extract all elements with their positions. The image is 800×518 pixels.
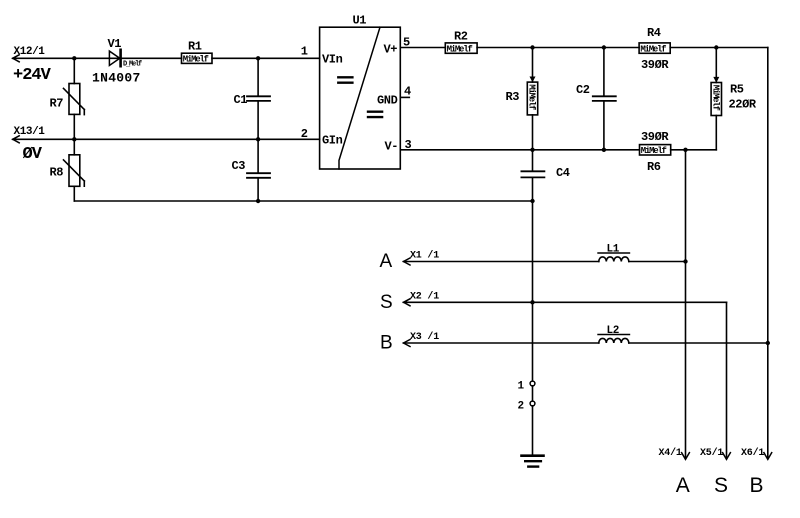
svg-text:C2: C2	[576, 83, 590, 97]
wire B left segment	[404, 342, 599, 344]
resistor R3	[527, 48, 538, 150]
resistor R4	[639, 43, 670, 55]
svg-text:GND: GND	[377, 93, 398, 107]
terminal X4/1	[659, 447, 690, 459]
junction V- / R3 C4	[530, 148, 534, 152]
svg-text:22ØR: 22ØR	[729, 98, 757, 112]
svg-text:V-: V-	[385, 140, 399, 154]
svg-text:X12/1: X12/1	[14, 46, 46, 58]
junction V- / line A	[683, 148, 687, 152]
switch contact 1	[530, 381, 535, 386]
svg-text:R8: R8	[50, 165, 64, 179]
wire bottom-left rail	[74, 200, 532, 202]
wire V+ rail R2 to R4	[477, 47, 639, 49]
wire line A vertical	[685, 150, 687, 459]
svg-text:S: S	[380, 292, 393, 313]
wire contact 2 to ground	[532, 406, 534, 455]
svg-text:X4/1: X4/1	[659, 447, 682, 459]
svg-text:D_Melf: D_Melf	[123, 61, 142, 69]
capacitor C1	[247, 58, 270, 139]
svg-text:X1 /1: X1 /1	[410, 250, 439, 262]
svg-text:MiMelf: MiMelf	[641, 146, 667, 156]
capacitor C3	[247, 139, 270, 201]
svg-text:X2 /1: X2 /1	[410, 290, 439, 302]
varistor R8	[64, 139, 85, 201]
junction V+ / R5	[714, 45, 718, 49]
svg-text:R2: R2	[454, 29, 468, 43]
junction bottom-left rail / shield drop	[530, 199, 534, 203]
terminal X6/1	[741, 447, 772, 459]
svg-text:39ØR: 39ØR	[641, 130, 669, 144]
svg-text:R5: R5	[730, 83, 744, 97]
wire between contacts	[532, 386, 534, 401]
svg-text:+24V: +24V	[13, 66, 52, 85]
svg-text:A: A	[380, 251, 393, 272]
terminal X1/1	[404, 250, 440, 265]
resistor R1	[182, 53, 213, 64]
terminal X3/1	[404, 331, 440, 346]
varistor R7	[64, 58, 85, 139]
wire A left segment	[404, 261, 599, 263]
capacitor C2	[593, 48, 616, 150]
svg-text:C1: C1	[234, 93, 248, 107]
svg-text:1: 1	[301, 45, 308, 59]
svg-text:MiMelf: MiMelf	[183, 55, 209, 65]
svg-text:B: B	[750, 474, 764, 497]
wire line B vertical right drop	[767, 48, 769, 459]
svg-text:V+: V+	[384, 42, 398, 56]
junction bottom rail / C3	[256, 199, 260, 203]
resistor R5	[710, 48, 721, 150]
svg-text:2: 2	[518, 400, 524, 412]
terminal X12/1	[13, 46, 46, 62]
dc-dc converter U1	[320, 27, 401, 169]
pin 4 stub	[400, 96, 409, 98]
resistor R6	[640, 145, 671, 157]
svg-text:C3: C3	[232, 159, 246, 173]
terminal X5/1	[700, 447, 730, 459]
wire B right segment	[629, 342, 768, 344]
wire V- rail R6 to R5	[671, 149, 717, 151]
resistor R2	[445, 43, 477, 55]
ground	[522, 456, 544, 467]
svg-text:MiMelf: MiMelf	[527, 84, 537, 110]
svg-text:39ØR: 39ØR	[641, 58, 669, 72]
svg-text:GIn: GIn	[322, 134, 343, 148]
svg-text:MiMelf: MiMelf	[710, 85, 720, 111]
junction shield drop / S wire	[530, 300, 534, 304]
svg-text:2: 2	[301, 127, 308, 141]
wire line S vertical	[726, 302, 728, 458]
svg-text:L1: L1	[607, 243, 620, 255]
svg-text:X6/1: X6/1	[741, 447, 764, 459]
svg-text:4: 4	[404, 84, 411, 98]
svg-text:MiMelf: MiMelf	[640, 44, 666, 54]
svg-text:1: 1	[518, 380, 525, 392]
diode V1	[109, 50, 120, 66]
svg-text:R7: R7	[50, 96, 64, 110]
svg-text:R6: R6	[647, 160, 661, 174]
capacitor C4	[521, 150, 544, 178]
svg-text:ØV: ØV	[23, 145, 43, 164]
svg-text:U1: U1	[353, 14, 367, 28]
svg-text:C4: C4	[556, 166, 570, 180]
wire 0V rail	[13, 138, 320, 140]
junction V+ / C2	[602, 45, 606, 49]
inductor L1	[598, 253, 630, 262]
wire V- rail U1 to R6	[400, 149, 639, 151]
svg-text:R1: R1	[188, 39, 202, 53]
wire +24V top rail left	[13, 57, 182, 59]
junction B wire / right drop	[766, 341, 770, 345]
svg-text:L2: L2	[607, 325, 619, 337]
wire shield drop C4 to switch	[532, 178, 534, 382]
wire V+ rail R4 to corner	[670, 47, 768, 49]
junction V- / C2	[602, 148, 606, 152]
terminal X2/1	[404, 290, 440, 305]
junction top rail / C1	[256, 56, 260, 60]
svg-text:A: A	[676, 474, 690, 497]
inductor L2	[598, 335, 630, 344]
svg-text:X5/1: X5/1	[700, 447, 723, 459]
svg-text:X13/1: X13/1	[14, 126, 46, 138]
svg-text:R3: R3	[506, 90, 520, 104]
junction top rail / R7	[72, 56, 76, 60]
junction 0V rail / R7 R8	[72, 137, 76, 141]
svg-text:VIn: VIn	[322, 53, 343, 67]
svg-text:S: S	[714, 474, 728, 497]
wire A right segment	[629, 261, 686, 263]
svg-text:R4: R4	[647, 26, 661, 40]
junction 0V rail / C1 C3	[256, 137, 260, 141]
junction V+ / R3	[530, 45, 534, 49]
svg-text:X3 /1: X3 /1	[410, 331, 439, 343]
svg-text:1N4007: 1N4007	[92, 71, 141, 86]
svg-text:MiMelf: MiMelf	[447, 44, 473, 54]
wire S horizontal	[404, 301, 727, 303]
svg-text:V1: V1	[108, 37, 122, 51]
terminal X13/1	[13, 126, 46, 143]
svg-text:B: B	[380, 333, 393, 354]
wire +24V top rail right of R1	[212, 57, 320, 59]
switch contact 2	[530, 401, 535, 406]
junction A wire / line A	[683, 259, 687, 263]
wire V+ rail U1 to R2	[400, 47, 445, 49]
